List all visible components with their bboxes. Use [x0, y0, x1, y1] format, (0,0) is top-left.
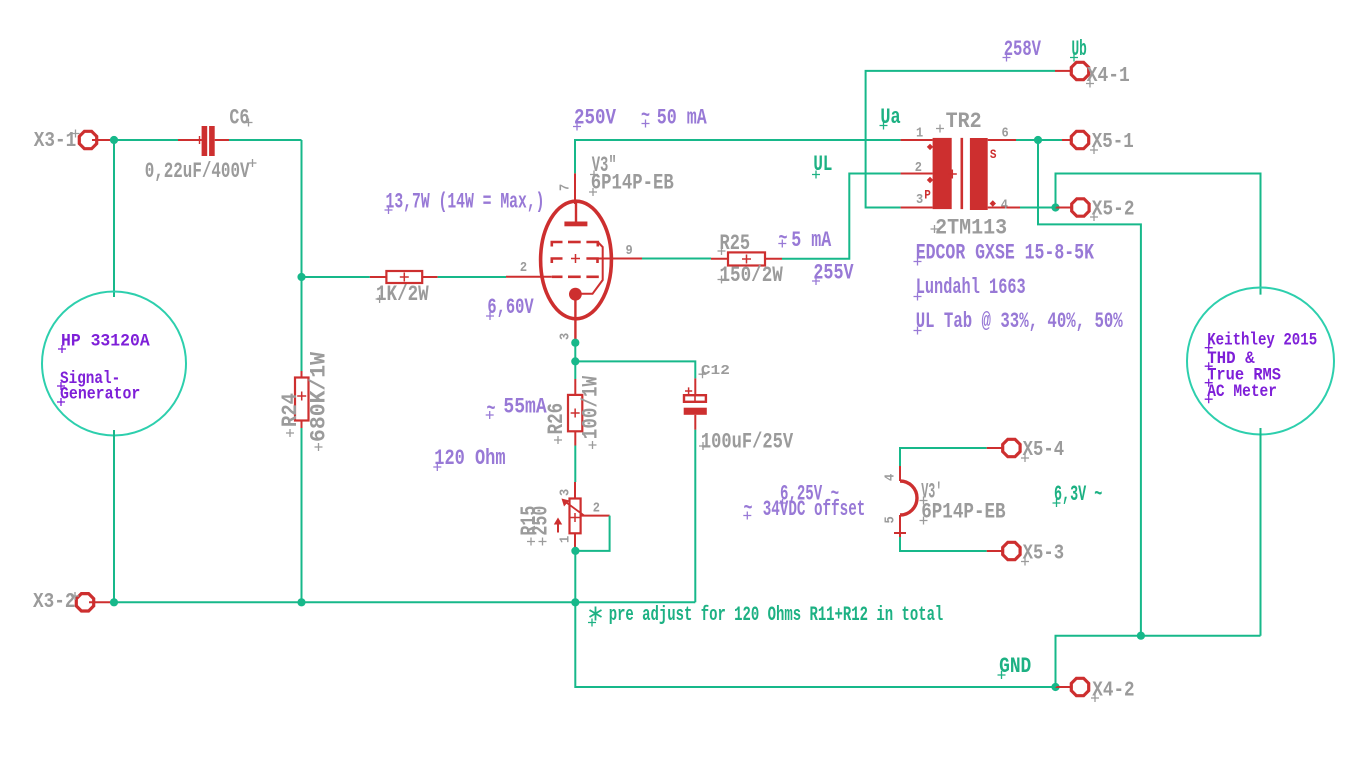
svg-text:P: P [924, 188, 931, 203]
svg-text:R24: R24 [277, 393, 303, 427]
svg-text:1: 1 [557, 535, 573, 543]
wire heater to X5-3 [900, 537, 987, 551]
svg-text:C12: C12 [701, 363, 730, 379]
resistor R25 [711, 258, 728, 260]
junction GND meter rail [1137, 632, 1145, 640]
tube suppressor to cathode tie [582, 242, 603, 294]
svg-text:6: 6 [1002, 125, 1009, 141]
wire X5-2 node to AC meter [1056, 174, 1261, 295]
transformer TR2 secondary winding [970, 138, 988, 210]
connector X5-4 [987, 447, 1002, 449]
wire bottom rail to GND rail [575, 602, 1055, 687]
svg-text:4: 4 [1001, 197, 1009, 213]
tube grid g2 row [552, 259, 563, 264]
wire X3-1 node down to signal generator [113, 140, 115, 297]
transformer pin 6 lead [988, 139, 1016, 141]
connector X4-2 [1056, 686, 1072, 688]
svg-text:AC Meter: AC Meter [1207, 381, 1277, 401]
svg-text:~: ~ [779, 225, 788, 251]
junction bottom rail R24 [297, 598, 305, 606]
wire pin4 to X5-2 [1020, 207, 1056, 209]
svg-text:X5-1: X5-1 [1092, 131, 1134, 154]
wire branch to C12 [575, 361, 695, 378]
svg-text:Lundahl 1663: Lundahl 1663 [916, 274, 1026, 300]
pot wiper lead pin 2 [581, 515, 610, 517]
tube grid g1 row [552, 275, 563, 278]
connector X5-2 [1056, 207, 1072, 209]
tube pin 2 lead [506, 276, 552, 278]
wire cathode to branch node [574, 343, 576, 362]
capacitor C6 [178, 139, 202, 141]
wire X5-4 to heater [900, 448, 987, 466]
svg-text:3: 3 [557, 489, 573, 496]
wire pin6 to X5-1 [1016, 139, 1062, 141]
connector X3-1 [79, 131, 96, 148]
resistor R24 [301, 371, 303, 378]
tube anode [575, 202, 577, 222]
svg-text:2: 2 [520, 259, 527, 275]
junction pot pin1 [571, 547, 579, 555]
svg-text:6,60V: 6,60V [487, 294, 534, 320]
svg-text:6P14P-EB: 6P14P-EB [921, 499, 1005, 525]
svg-text:2: 2 [593, 500, 600, 516]
connector X4-1 [1055, 70, 1071, 72]
svg-text:55mA: 55mA [503, 394, 547, 420]
svg-text:X5-2: X5-2 [1092, 198, 1135, 221]
svg-text:5 mA: 5 mA [791, 227, 832, 253]
svg-text:X4-2: X4-2 [1092, 679, 1134, 702]
svg-text:120 Ohm: 120 Ohm [434, 445, 505, 471]
capacitor C12 [694, 378, 696, 395]
tube pin 3 lead [574, 300, 576, 342]
svg-text:4: 4 [882, 473, 898, 481]
transformer pin 4 lead [988, 207, 1020, 209]
svg-text:7: 7 [557, 184, 573, 191]
tube cathode [569, 288, 582, 301]
svg-text:100/1W: 100/1W [578, 375, 604, 439]
transformer TR2 primary winding [933, 138, 952, 209]
note pre adjust asterisk [590, 607, 602, 621]
svg-text:~: ~ [744, 495, 753, 521]
svg-text:2TM113: 2TM113 [935, 215, 1007, 241]
tube V3 pin 7 lead [574, 173, 576, 204]
wire tube pin9 to R25 [642, 258, 711, 260]
svg-text:Generator: Generator [60, 384, 140, 404]
svg-text:5: 5 [882, 516, 898, 523]
svg-text:3: 3 [557, 333, 573, 340]
AC meter circle [1187, 288, 1334, 435]
connector X5-1 [1062, 139, 1071, 141]
junction X4-2 node [1051, 683, 1059, 691]
transformer core [960, 138, 963, 209]
pentode V3 envelope [541, 201, 612, 319]
heater filament V3' [899, 466, 901, 481]
svg-text:9: 9 [626, 242, 633, 258]
svg-text:R25: R25 [720, 230, 751, 256]
tube pin 9 lead [595, 258, 642, 260]
connector X5-3 [987, 550, 1002, 552]
wire pot wiper to pin 1 [576, 516, 610, 551]
junction X5-2 node [1051, 203, 1059, 211]
wire transformer pin3 to X4-1 (258V) [866, 71, 1055, 208]
svg-text:~: ~ [487, 396, 496, 422]
svg-text:UL Tab @ 33%, 40%, 50%: UL Tab @ 33%, 40%, 50% [916, 308, 1124, 334]
resistor 1K/2W [370, 276, 387, 278]
junction node A [297, 273, 305, 281]
wire C6 to node A [229, 139, 302, 141]
wire R26 to R15 [574, 446, 576, 483]
signal generator circle [42, 292, 186, 436]
svg-text:X3-1: X3-1 [34, 130, 77, 153]
wire GND rail right [1056, 636, 1261, 687]
resistor R26 [574, 361, 576, 379]
wire 1K/2W to tube grid pin 2 [438, 276, 506, 278]
junction X5-1 node [1034, 136, 1042, 144]
wire node down to junction [301, 140, 303, 371]
svg-text:13,7W (14W = Max,): 13,7W (14W = Max,) [386, 189, 545, 215]
svg-text:X4-1: X4-1 [1087, 65, 1130, 88]
svg-text:50 mA: 50 mA [657, 105, 708, 131]
wire R25 to transformer pin 2 (UL) [782, 174, 901, 259]
wire generator to X3-2 rail [113, 430, 115, 602]
wire pot to bottom rail [574, 551, 576, 602]
svg-text:2: 2 [915, 159, 922, 175]
wire AC meter to GND rail [1260, 428, 1262, 636]
svg-text:0,22uF/400V: 0,22uF/400V [145, 158, 250, 184]
junction cathode branch [571, 357, 579, 365]
tube grid g3 row [552, 242, 563, 247]
transformer origin cross [948, 170, 957, 179]
svg-text:250: 250 [528, 506, 554, 536]
svg-text:S: S [990, 147, 997, 162]
svg-text:100uF/25V: 100uF/25V [701, 429, 794, 455]
junction at X3-1 node [110, 136, 118, 144]
svg-text:3: 3 [916, 191, 923, 207]
junction at X3-2 node [110, 598, 118, 606]
svg-text:680K/1W: 680K/1W [306, 351, 332, 442]
svg-text:6P14P-EB: 6P14P-EB [591, 170, 674, 196]
svg-text:6,3V ~: 6,3V ~ [1054, 481, 1102, 507]
svg-text:1K/2W: 1K/2W [376, 281, 429, 307]
wire C12 to bottom rail [694, 430, 696, 603]
wire X5-1 node to GND rail [1038, 140, 1141, 636]
svg-text:R26: R26 [543, 403, 569, 435]
potentiometer R15 [574, 482, 576, 499]
svg-text:C6: C6 [229, 105, 249, 131]
wire junction to 1K/2W [302, 276, 370, 278]
svg-text:150/2W: 150/2W [720, 262, 784, 288]
svg-text:Keithley 2015: Keithley 2015 [1207, 330, 1317, 350]
svg-text:TR2: TR2 [946, 108, 982, 134]
svg-text:pre adjust for 120 Ohms R11+R1: pre adjust for 120 Ohms R11+R12 in total [609, 604, 944, 627]
transformer TR2 primary pins [901, 139, 933, 141]
svg-text:X3-2: X3-2 [33, 591, 76, 614]
connector X3-2 [76, 594, 93, 611]
wire X3-1 to C6 [110, 139, 178, 141]
bottom rail wire X3-2 to C12 branch [110, 601, 695, 603]
wire plate node 250V [575, 140, 901, 173]
svg-text:HP 33120A: HP 33120A [61, 331, 150, 351]
junction bottom rail pot node [571, 598, 579, 606]
svg-text:1: 1 [916, 125, 924, 141]
svg-text:34VDC offset: 34VDC offset [763, 496, 866, 522]
svg-text:EDCOR GXSE 15-8-5K: EDCOR GXSE 15-8-5K [916, 240, 1095, 266]
junction tube cathode node [571, 339, 579, 347]
wire R24 to bottom rail [301, 428, 303, 602]
